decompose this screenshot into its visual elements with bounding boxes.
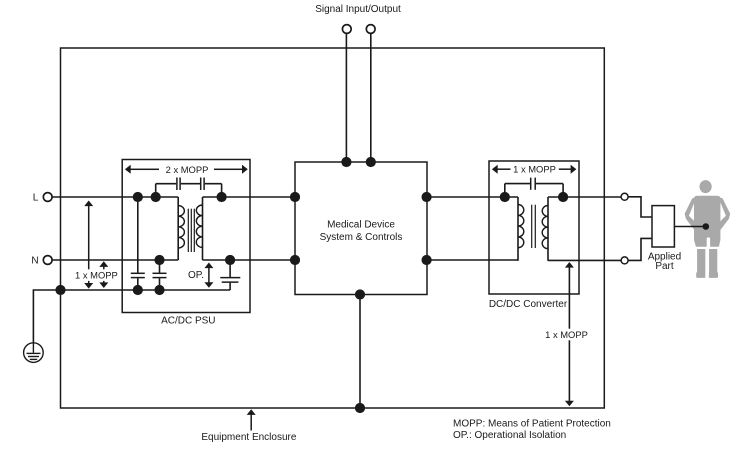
patient left leg bbox=[697, 249, 705, 273]
transformer T1 primary winding bbox=[178, 197, 184, 260]
wire signal 2 vertical bbox=[370, 34, 372, 162]
svg-text:System & Controls: System & Controls bbox=[320, 232, 403, 243]
node junction OP cap bbox=[225, 255, 235, 265]
node medical bottom bbox=[355, 289, 365, 299]
wire bridge segment 3 bbox=[205, 183, 222, 185]
node junction secondary top bbox=[217, 192, 227, 202]
node junction L cap bbox=[133, 192, 143, 202]
wire signal 1 vertical bbox=[345, 34, 347, 162]
capacitor C2 N to earth bbox=[153, 260, 167, 290]
svg-text:1 x MOPP: 1 x MOPP bbox=[513, 164, 556, 175]
terminal output plus bbox=[621, 193, 628, 200]
wire output plus to applied part bbox=[628, 197, 652, 217]
wire bridge segment 1 bbox=[156, 183, 177, 185]
DC/DC Converter box bbox=[489, 161, 579, 294]
node patient connection bbox=[703, 223, 710, 230]
svg-text:AC/DC PSU: AC/DC PSU bbox=[161, 315, 215, 326]
annotation arrow 1 x MOPP dcdc left bbox=[492, 165, 511, 174]
annotation arrow equipment enclosure bbox=[247, 409, 256, 430]
ground protective earth symbol bbox=[24, 343, 44, 363]
node junction L bridge bbox=[151, 192, 161, 202]
node dcdc primary top bbox=[500, 192, 510, 202]
patient right foot bbox=[709, 273, 718, 278]
label Applied Part bbox=[648, 251, 681, 272]
svg-text:Equipment Enclosure: Equipment Enclosure bbox=[201, 432, 296, 443]
transformer T1 core bbox=[188, 209, 194, 252]
patient head bbox=[700, 180, 712, 193]
wire secondary bottom to medical box bbox=[203, 259, 296, 261]
wire dcdc secondary top to terminal bbox=[548, 196, 621, 198]
transformer T1 secondary winding bbox=[196, 197, 202, 260]
label Medical Device System & Controls bbox=[320, 220, 403, 244]
annotation OP arrow bbox=[204, 263, 213, 288]
node junction enclosure bottom bbox=[355, 403, 365, 413]
node medical left L bbox=[290, 192, 300, 202]
patient torso and shorts bbox=[694, 196, 720, 247]
wire bridge segment 2 bbox=[181, 183, 200, 185]
svg-text:OP.: Operational Isolation: OP.: Operational Isolation bbox=[453, 430, 566, 441]
capacitor C3 OP bbox=[220, 260, 240, 290]
wire medical bottom to enclosure bbox=[359, 295, 361, 409]
patient right leg bbox=[709, 249, 717, 273]
svg-text:Part: Part bbox=[655, 261, 674, 272]
svg-text:L: L bbox=[33, 192, 39, 203]
svg-text:1 x MOPP: 1 x MOPP bbox=[545, 329, 588, 340]
node medical top signal 2 bbox=[366, 157, 376, 167]
svg-text:N: N bbox=[31, 255, 38, 266]
wire dcdc bridge segment 2 bbox=[536, 183, 563, 185]
transformer T2 primary winding bbox=[518, 197, 524, 261]
svg-text:DC/DC Converter: DC/DC Converter bbox=[489, 299, 568, 310]
wire bridge left stub bbox=[155, 184, 157, 197]
transformer T2 core bbox=[532, 205, 536, 248]
patient left foot bbox=[696, 273, 705, 278]
terminal signal input 2 bbox=[366, 25, 375, 34]
patient right arm bbox=[715, 197, 730, 231]
wire dcdc secondary bottom to terminal bbox=[548, 259, 621, 261]
wire medical to dcdc bottom bbox=[427, 259, 518, 261]
patient figure bbox=[685, 180, 731, 278]
node junction earth right cap bbox=[154, 285, 164, 295]
annotation arrow 2 x MOPP left bbox=[125, 165, 159, 174]
wire L line bbox=[52, 196, 178, 198]
wire protective earth branch bbox=[33, 290, 60, 343]
capacitor C1 L to earth bbox=[131, 197, 145, 290]
node medical top signal 1 bbox=[341, 157, 351, 167]
svg-text:2 x MOPP: 2 x MOPP bbox=[166, 164, 209, 175]
svg-text:Medical Device: Medical Device bbox=[327, 220, 395, 231]
wire dcdc bridge left stub bbox=[504, 184, 506, 197]
annotation arrow 2 x MOPP right bbox=[214, 165, 248, 174]
node junction N cap bbox=[154, 255, 164, 265]
capacitor C4 dcdc bridge bbox=[531, 178, 536, 190]
wire dcdc bridge segment 1 bbox=[505, 183, 530, 185]
capacitor Y1 bridge bbox=[177, 178, 180, 191]
Medical Device box bbox=[295, 162, 427, 295]
patient left arm bbox=[685, 197, 700, 231]
wire secondary top to medical box bbox=[203, 196, 296, 198]
node junction earth left cap bbox=[133, 285, 143, 295]
wire dcdc bridge right stub bbox=[562, 184, 564, 197]
equipment enclosure bbox=[61, 48, 605, 408]
wire earth line bbox=[61, 289, 231, 291]
svg-text:MOPP: Means of Patient Protect: MOPP: Means of Patient Protection bbox=[453, 419, 611, 430]
wire medical to dcdc top bbox=[427, 196, 518, 198]
wire bridge right stub bbox=[221, 184, 223, 197]
node dcdc secondary top bbox=[558, 192, 568, 202]
node medical right dc minus bbox=[422, 255, 432, 265]
transformer T2 secondary winding bbox=[542, 197, 548, 261]
AC/DC PSU box bbox=[122, 160, 250, 313]
node medical right dc plus bbox=[422, 192, 432, 202]
node junction earth enclosure bbox=[55, 285, 65, 295]
terminal output minus bbox=[621, 257, 628, 264]
annotation arrow 1 x MOPP short (N to earth) bbox=[99, 261, 108, 288]
annotation arrow 1 x MOPP long (L to earth) bbox=[84, 201, 93, 289]
annotation arrow 1 x MOPP dcdc-to-enclosure bbox=[565, 262, 574, 406]
svg-text:OP.: OP. bbox=[188, 270, 204, 281]
wire N line bbox=[52, 259, 178, 261]
capacitor Y2 bridge bbox=[201, 178, 204, 191]
wire output minus to applied part bbox=[628, 238, 652, 260]
node medical left N bbox=[290, 255, 300, 265]
label 1 x MOPP bottom bbox=[543, 329, 590, 341]
Applied Part box bbox=[652, 206, 674, 247]
terminal signal input 1 bbox=[342, 25, 351, 34]
svg-text:1 x MOPP: 1 x MOPP bbox=[75, 270, 118, 281]
annotation arrow 1 x MOPP dcdc right bbox=[559, 165, 577, 174]
svg-text:Signal Input/Output: Signal Input/Output bbox=[315, 4, 401, 15]
label 1 x MOPP left bbox=[74, 269, 121, 281]
wire applied part to patient bbox=[674, 226, 703, 228]
